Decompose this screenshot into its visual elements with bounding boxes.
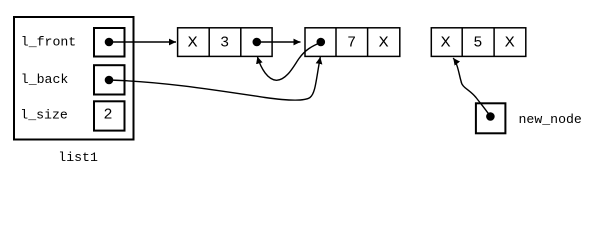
svg-text:l_front: l_front: [21, 34, 76, 49]
svg-text:X: X: [441, 35, 451, 52]
svg-text:2: 2: [103, 107, 112, 124]
svg-text:7: 7: [347, 35, 356, 52]
svg-text:5: 5: [473, 35, 482, 52]
svg-text:list1: list1: [58, 150, 98, 165]
svg-text:3: 3: [220, 35, 229, 52]
svg-text:new_node: new_node: [519, 112, 582, 127]
svg-text:l_size: l_size: [20, 108, 68, 123]
svg-text:l_back: l_back: [21, 72, 69, 87]
svg-text:X: X: [505, 35, 515, 52]
svg-text:X: X: [379, 35, 389, 52]
svg-text:X: X: [188, 35, 198, 52]
